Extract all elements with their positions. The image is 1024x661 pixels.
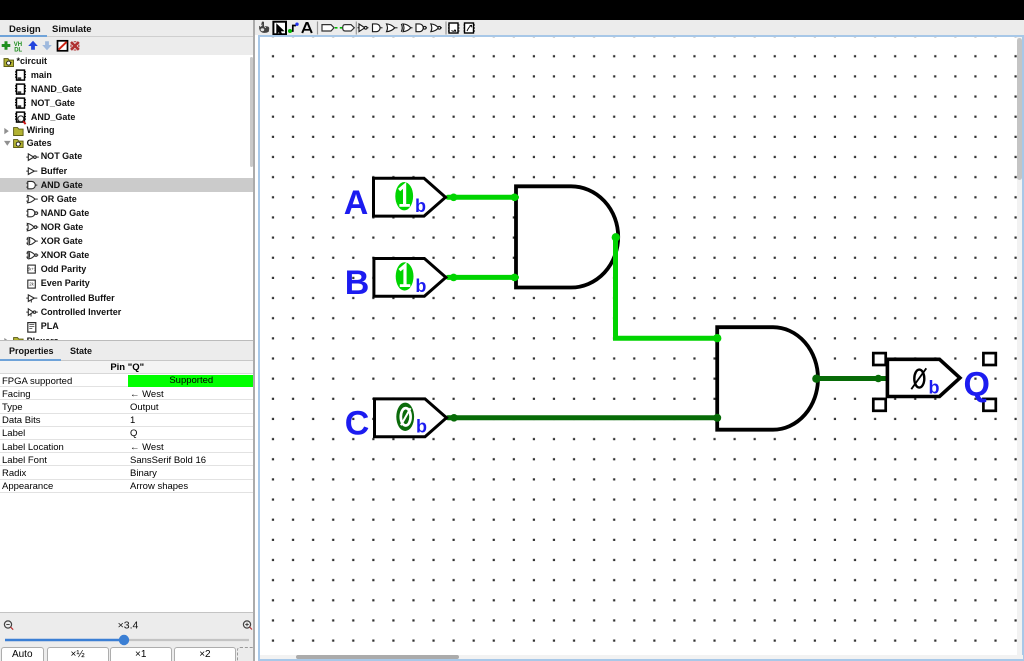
input pin A [374,178,446,216]
node: AND2 output junction [812,375,820,383]
canvas scrollbars [1017,37,1023,655]
pin C value subscript b [416,417,427,437]
left panel toolbar [0,37,253,55]
and-gate U2 [717,327,818,430]
properties tabs [0,341,253,361]
pin Q value 0 [911,368,926,389]
wire B-to-AND1 [448,275,517,280]
node: AND1 input B junction [511,274,519,282]
node: wire A left junction [450,194,458,202]
node: AND2 input C junction [713,414,721,422]
pin Q value subscript b [929,378,940,398]
svg-text:b: b [929,378,940,398]
canvas pane with focus ring [258,35,1024,661]
and-gate U1 [516,186,618,287]
selection handle top-right [983,353,995,365]
node: wire B left junction [450,274,458,282]
selection handle bottom-left [873,399,885,411]
node: AND1 input A junction [511,194,519,202]
svg-text:C: C [345,405,370,443]
svg-text:b: b [416,417,427,437]
menu band [0,20,1024,37]
label B [345,264,370,302]
divider [253,20,255,661]
top black bar [0,0,1024,20]
wire AND1-output to AND2-input (L-shaped) [616,238,718,338]
wire AND2-output to pin Q [816,376,889,381]
bottom buttons [0,646,257,661]
tree [0,55,253,341]
wire A-to-AND1 [448,195,517,200]
svg-text:×3.4: ×3.4 [118,619,139,631]
svg-text:Q: Q [963,365,989,403]
zoom bar [0,612,255,646]
canvas toolbar icons [256,20,486,36]
svg-text:2k+1: 2k+1 [27,267,37,272]
input pin B [374,259,446,297]
input pin C [375,399,447,437]
svg-text:b: b [415,276,426,296]
node: pin Q input junction [875,375,883,383]
properties panel [0,361,255,613]
node: AND1 output junction [612,233,620,241]
svg-text:DL: DL [14,48,22,54]
selection handle top-left [873,353,885,365]
node: wire C left junction [450,414,458,422]
wire C-to-AND2 [448,415,718,420]
output pin Q [887,359,960,396]
svg-text:A: A [344,184,369,222]
pin A value subscript b [415,196,426,216]
label C [345,405,370,443]
svg-text:b: b [415,196,426,216]
selection handle bottom-right [983,399,995,411]
pin B value subscript b [415,276,426,296]
label A [344,184,369,222]
svg-text:B: B [345,264,370,302]
node: AND2 upper input junction [713,334,721,342]
label Q [963,365,989,403]
pin C zero slash [401,408,411,425]
